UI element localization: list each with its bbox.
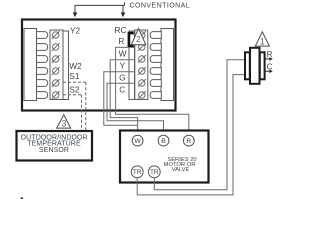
svg-text:R: R: [118, 36, 124, 46]
svg-text:W2: W2: [69, 61, 82, 71]
svg-text:B: B: [161, 138, 166, 145]
svg-text:3: 3: [62, 119, 67, 129]
svg-text:C: C: [119, 84, 125, 94]
svg-text:TR: TR: [133, 169, 142, 176]
svg-text:S1: S1: [69, 71, 80, 81]
svg-text:Y: Y: [120, 60, 126, 70]
svg-text:W: W: [134, 138, 141, 145]
svg-text:R: R: [267, 50, 273, 59]
svg-text:SENSOR: SENSOR: [39, 147, 69, 154]
svg-text:C: C: [267, 62, 273, 71]
svg-text:R: R: [186, 138, 191, 145]
svg-text:VALVE: VALVE: [172, 167, 190, 173]
svg-text:S2: S2: [69, 85, 80, 95]
svg-text:W: W: [119, 49, 127, 59]
svg-text:G: G: [119, 72, 125, 82]
svg-text:Y2: Y2: [70, 25, 81, 35]
svg-text:TR: TR: [150, 169, 159, 176]
svg-text:1: 1: [260, 36, 265, 46]
svg-text:RC: RC: [115, 25, 127, 35]
svg-text:CONVENTIONAL: CONVENTIONAL: [130, 3, 191, 10]
svg-text:2: 2: [136, 34, 141, 44]
